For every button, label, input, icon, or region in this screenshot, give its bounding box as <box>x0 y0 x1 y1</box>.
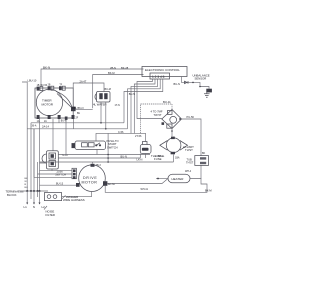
wire cam riser run BK-M <box>93 75 144 109</box>
wire bottom long run <box>105 178 207 192</box>
motor right terminal <box>103 181 107 186</box>
drive motor top terminal <box>91 164 102 167</box>
svg-text:WIRE HARNESS: WIRE HARNESS <box>63 198 85 202</box>
svg-text:WH-41: WH-41 <box>141 188 149 191</box>
wire heater right link <box>190 165 201 178</box>
timer terminal 5A <box>65 117 68 120</box>
wire pin3 drop <box>131 79 158 133</box>
svg-text:2B-N: 2B-N <box>110 66 116 70</box>
svg-text:BK-N: BK-N <box>43 66 50 70</box>
wire strip feeds <box>34 158 72 177</box>
wire band y158 <box>58 154 140 159</box>
svg-text:BK-M: BK-M <box>205 189 211 193</box>
wire timer 2A to door switch <box>52 119 54 151</box>
wire pin1 to level switch <box>137 79 162 119</box>
svg-text:BK: BK <box>202 152 206 155</box>
wire timer aux drop <box>65 120 67 155</box>
wire tb drops <box>27 191 39 203</box>
wire level sw right <box>182 119 202 156</box>
timer terminal 4A <box>72 115 75 119</box>
noise filter FL1 <box>44 192 91 201</box>
svg-text:BU: BU <box>25 187 28 189</box>
wire top main run BK <box>41 69 144 87</box>
unbalance sensor label <box>193 73 210 80</box>
svg-text:FUSE: FUSE <box>154 157 162 161</box>
tub thermostat S5 <box>195 156 209 166</box>
label WASHER WIRE HARNESS <box>62 195 85 202</box>
node valve branch <box>107 161 109 163</box>
wire fuse bottom drop <box>145 154 147 159</box>
svg-text:BU-N: BU-N <box>121 154 127 158</box>
svg-text:1 2 3 4 5: 1 2 3 4 5 <box>152 75 165 79</box>
motor left terminal <box>76 183 80 187</box>
wire control to sensor cap <box>182 77 210 89</box>
timer terminal 3A <box>58 115 67 122</box>
wire heater left stub <box>156 178 168 180</box>
timer motor M1 <box>36 89 62 115</box>
label HI-LIMIT THST <box>183 145 194 152</box>
timer terminal 2B <box>48 85 54 91</box>
wire timer 1A run <box>31 119 124 191</box>
svg-text:4L WATER: 4L WATER <box>93 103 107 107</box>
wire band y162 <box>40 161 174 163</box>
svg-text:C-56: C-56 <box>118 131 124 134</box>
water valve V1 <box>93 88 120 107</box>
svg-text:BU-11: BU-11 <box>163 100 171 104</box>
push-to-start switch S4 <box>72 141 106 150</box>
svg-text:BU: BU <box>77 113 81 115</box>
wire valve branch drop <box>107 133 109 162</box>
timer cam terminal <box>71 107 76 112</box>
wire main left vertical <box>39 119 41 191</box>
wire level sw to hi-limit <box>171 129 173 137</box>
wire tb horizontal <box>18 190 48 192</box>
svg-text:MOTOR: MOTOR <box>42 102 54 106</box>
wire motor top riser <box>92 162 94 164</box>
node hi-limit top <box>171 130 173 132</box>
timer terminal 2A <box>44 115 51 123</box>
wire pin2 drop <box>134 79 155 133</box>
wire switch bottom drop <box>96 150 98 155</box>
wire pin5 drop <box>124 79 163 123</box>
svg-text:BU-N: BU-N <box>129 93 135 96</box>
svg-text:FILTER: FILTER <box>46 213 55 217</box>
svg-text:BU-13: BU-13 <box>56 183 64 186</box>
wire motor right to heater <box>107 179 168 184</box>
wire motor left feed <box>40 184 77 186</box>
wire valve drops <box>101 102 106 129</box>
wire pin4 drop <box>128 79 161 129</box>
wire BU-11 run <box>140 104 172 133</box>
label wire colors <box>25 178 28 189</box>
svg-text:1T-N: 1T-N <box>115 104 120 107</box>
wire switch left link <box>40 163 53 171</box>
timer cam arm <box>56 91 72 107</box>
timer box <box>35 88 73 118</box>
svg-text:36-A: 36-A <box>32 125 37 128</box>
ground <box>204 92 210 97</box>
svg-text:BK-28: BK-28 <box>121 66 129 70</box>
node sensor junction <box>185 81 189 84</box>
node tb j3 <box>33 190 35 192</box>
capacitor C1 <box>206 89 212 93</box>
label NOISE FILTER <box>44 206 55 217</box>
svg-text:MOTOR: MOTOR <box>82 180 98 184</box>
svg-text:TW 5T: TW 5T <box>154 113 162 117</box>
svg-text:2T-56: 2T-56 <box>135 135 142 138</box>
svg-text:2A-14: 2A-14 <box>42 125 49 129</box>
svg-text:TB-3: TB-3 <box>96 164 102 167</box>
node tb j5 <box>39 190 41 192</box>
wire cam terminal drop <box>73 119 75 129</box>
wire left bus x37 <box>37 162 39 191</box>
wire cam terminal link <box>76 108 93 110</box>
svg-text:BU-N: BU-N <box>174 82 180 86</box>
wire timer to valve top <box>73 83 104 92</box>
svg-text:SWITCH: SWITCH <box>55 173 66 177</box>
label PUSH-TO START SWITCH <box>107 139 119 149</box>
door switch S3 <box>42 151 58 169</box>
svg-text:N: N <box>33 205 35 209</box>
node heater left <box>157 178 159 180</box>
hi-limit thermostat S6 <box>160 137 188 155</box>
electronic control pin box 1-5 <box>150 73 170 79</box>
heater R1 <box>168 174 190 183</box>
svg-text:DRIVE: DRIVE <box>83 176 97 180</box>
label 3036 SWITCH <box>55 169 66 176</box>
timer terminal 1B <box>37 85 43 91</box>
svg-text:TH'ST: TH'ST <box>185 148 193 152</box>
svg-text:L1: L1 <box>24 205 28 209</box>
electronic control U1 <box>142 67 187 77</box>
label TUB THST <box>186 158 194 165</box>
svg-text:SWITCH: SWITCH <box>107 145 118 149</box>
node tb j2 <box>30 190 32 192</box>
svg-text:BLOCK: BLOCK <box>7 193 17 197</box>
wire L feed left <box>22 82 27 191</box>
timer terminal TF <box>59 85 65 91</box>
svg-text:1B: 1B <box>37 85 40 87</box>
svg-text:SENSOR: SENSOR <box>195 76 207 80</box>
node tb j4 <box>37 190 39 192</box>
svg-text:HEATER: HEATER <box>172 177 185 181</box>
wire mid horizontal to fuse <box>96 133 146 141</box>
thermal fuse F1 <box>140 142 151 154</box>
svg-text:ELECTRONIC CONTROL: ELECTRONIC CONTROL <box>145 68 180 72</box>
wire hi-limit bottom drop <box>173 155 175 163</box>
svg-text:WH-4: WH-4 <box>185 170 192 173</box>
wire band y154 <box>58 154 150 156</box>
wire left bus x34 <box>33 129 35 158</box>
svg-text:TH'ST: TH'ST <box>186 161 194 165</box>
label 4 TO 7MF THST <box>151 110 163 117</box>
timer terminal 1A <box>37 115 40 123</box>
svg-text:BU-M: BU-M <box>105 88 111 91</box>
motor terminal strip <box>72 168 76 179</box>
wire lower left run <box>27 129 127 191</box>
svg-text:2A 4T: 2A 4T <box>80 79 87 83</box>
svg-text:BK-M: BK-M <box>108 71 114 75</box>
svg-text:2B: 2B <box>48 85 51 87</box>
drive motor M2 <box>79 165 106 192</box>
water level switch S2 <box>162 110 182 129</box>
label THERMAL FUSE <box>151 154 165 161</box>
svg-text:1BA: 1BA <box>175 156 180 159</box>
svg-text:PU-56: PU-56 <box>187 115 195 119</box>
terminal block TB1 <box>6 190 24 197</box>
svg-text:LBU-10: LBU-10 <box>28 79 37 83</box>
node tb j1 <box>26 190 28 192</box>
